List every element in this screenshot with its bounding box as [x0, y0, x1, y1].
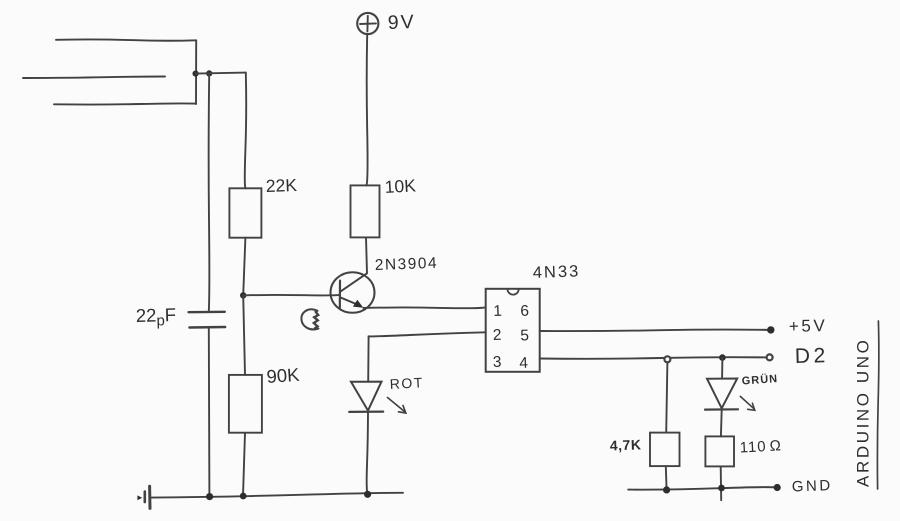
ground rail left [151, 493, 403, 498]
label +5V [789, 316, 828, 336]
node A junction dot [193, 71, 199, 77]
svg-text:GND: GND [792, 477, 833, 495]
label 4N33 [533, 262, 581, 282]
label 9V [387, 11, 414, 34]
transistor Q1 collector stroke [340, 273, 366, 291]
node LED GRUEN junction dot [719, 354, 726, 361]
svg-text:4N33: 4N33 [533, 262, 581, 282]
svg-text:2: 2 [493, 327, 502, 344]
svg-text:9V: 9V [387, 11, 414, 34]
LED ROT light arrow [388, 398, 406, 414]
svg-text:10K: 10K [384, 175, 416, 197]
resistor 10K body [351, 185, 380, 237]
wire down to LED ROT [367, 336, 369, 382]
svg-text:1: 1 [493, 303, 502, 320]
wire divider top to R 22K [245, 73, 246, 189]
label ARDUINO UNO vertical [854, 338, 873, 488]
LED GRUEN light arrow [740, 396, 755, 410]
base node junction dot [240, 292, 246, 298]
label 110 ohm [739, 437, 782, 456]
svg-text:4,7K: 4,7K [610, 436, 642, 453]
label ROT [389, 374, 424, 392]
pin 4 [519, 355, 529, 372]
D2 terminal open circle [767, 354, 773, 360]
svg-text:2N3904: 2N3904 [375, 255, 439, 274]
resistor 90K body [229, 375, 262, 433]
label 90K [266, 364, 301, 387]
wire R22K to base node [243, 238, 245, 296]
antenna plug bottom bar [54, 103, 196, 104]
pickup scribble symbol [301, 309, 318, 329]
resistor 22K body [229, 188, 261, 237]
transistor Q1 base bar [339, 281, 341, 308]
antenna plug top bar [56, 39, 196, 40]
pin 5 [520, 327, 529, 344]
wire pin5 to +5V [540, 330, 771, 332]
wire node A to divider top [196, 73, 246, 74]
svg-text:ARDUINO UNO: ARDUINO UNO [854, 338, 873, 488]
LED GRUEN triangle [707, 379, 737, 409]
junction dot rail cap branch [206, 493, 213, 500]
wire capacitor to ground rail [208, 328, 211, 497]
optocoupler U1 4N33 body [486, 289, 540, 372]
svg-text:4: 4 [519, 355, 529, 372]
label 2N3904 [375, 255, 439, 274]
wire pin2 to LED ROT [369, 332, 486, 336]
wire R10K to collector [366, 237, 367, 273]
junction dot rail R4,7K [663, 486, 670, 493]
transistor Q1 emitter arrowhead [353, 300, 363, 308]
antenna plug vertical [195, 40, 197, 104]
label 22K [265, 175, 297, 196]
supply 9V circle [357, 13, 378, 34]
label GRUEN [741, 372, 778, 388]
svg-text:D2: D2 [795, 344, 830, 368]
svg-text:+5V: +5V [789, 316, 828, 336]
ground symbol [148, 486, 151, 508]
node R4.7K open circle on D2 line [664, 356, 670, 362]
svg-text:ROT: ROT [389, 374, 424, 392]
wire D2 node to R 4,7K [666, 362, 667, 432]
junction dot rail R110 [718, 485, 725, 492]
svg-text:5: 5 [520, 327, 529, 344]
capacitor 22pF top plate [189, 311, 225, 314]
wire R90K to ground rail [243, 433, 245, 496]
LED GRUEN cathode bar [705, 408, 738, 411]
pin 1 [493, 303, 502, 320]
label 10K [384, 175, 416, 197]
svg-text:22K: 22K [265, 175, 297, 196]
svg-text:GRÜN: GRÜN [741, 372, 778, 388]
+5V terminal dot [767, 326, 774, 333]
svg-text:6: 6 [520, 303, 529, 320]
label D2 [795, 344, 830, 368]
pin 2 [493, 327, 502, 344]
wire R110 through ground rail [720, 466, 723, 500]
wire R4,7K to ground rail [665, 466, 668, 490]
GND terminal dot [774, 484, 781, 491]
pin 3 [493, 354, 502, 371]
resistor 110R body [705, 436, 734, 466]
wire emitter to optocoupler pin1 [364, 306, 486, 309]
resistor 4,7K body [650, 433, 680, 467]
arduino underline [877, 321, 878, 489]
wire 9V to R 10K [367, 34, 368, 185]
label 22pF [136, 304, 177, 330]
optocoupler notch [507, 289, 518, 295]
pin 6 [520, 303, 529, 320]
wire base [243, 294, 340, 297]
LED ROT triangle [351, 382, 382, 411]
ground rail right [628, 487, 777, 490]
wire D2 to LED GRUEN [721, 358, 723, 379]
antenna plug middle prong [23, 77, 165, 79]
label 4,7K [610, 436, 642, 453]
capacitor 22pF bottom plate [189, 326, 225, 329]
wire pin4 to D2 [540, 357, 767, 359]
svg-text:110Ω: 110Ω [739, 437, 782, 456]
supply 9V plus sign [360, 16, 376, 32]
transistor Q1 circle [331, 272, 375, 313]
wire LED ROT to ground rail [367, 412, 368, 495]
LED ROT cathode bar [349, 411, 383, 413]
wire LED GRUEN to R 110 [720, 410, 723, 437]
svg-text:3: 3 [493, 354, 502, 371]
junction dot rail LED ROT branch [364, 491, 371, 498]
wire base node to R 90K [243, 295, 245, 375]
svg-text:90K: 90K [266, 364, 301, 387]
transistor Q1 emitter stroke [340, 297, 358, 305]
wire node B down to capacitor [208, 73, 211, 311]
node B junction dot [206, 70, 212, 76]
junction dot rail R90K branch [240, 493, 247, 500]
label GND [792, 477, 833, 495]
